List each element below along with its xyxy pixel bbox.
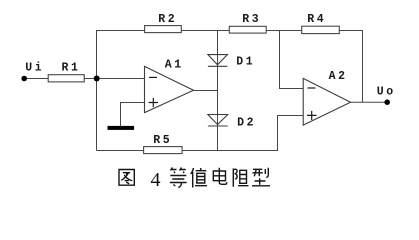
svg-text:D2: D2 [237, 116, 256, 129]
svg-text:R1: R1 [62, 61, 81, 74]
svg-text:A1: A1 [165, 59, 184, 72]
svg-text:R4: R4 [307, 13, 326, 26]
svg-text:D1: D1 [236, 56, 255, 69]
svg-text:A2: A2 [329, 70, 348, 83]
svg-text:R3: R3 [242, 13, 261, 26]
svg-text:4: 4 [151, 169, 161, 191]
svg-text:R5: R5 [153, 134, 172, 147]
svg-text:Ui: Ui [25, 61, 44, 74]
svg-text:Uo: Uo [377, 86, 396, 99]
svg-text:R2: R2 [158, 13, 177, 26]
